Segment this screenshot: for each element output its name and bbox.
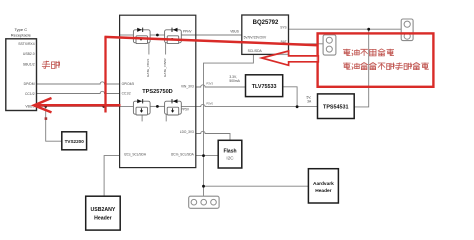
svg-text:TVS2200: TVS2200 bbox=[65, 139, 85, 144]
svg-text:P5V0: P5V0 bbox=[206, 101, 213, 105]
wire SYS branch to TPS54531 input bbox=[354, 29, 369, 107]
wire VIN_3V3 to TLV75533 bbox=[196, 85, 246, 87]
svg-text:Receptacle: Receptacle bbox=[11, 33, 32, 38]
gate stub GATE_VIN5V bbox=[165, 43, 167, 55]
transistor FET3 5V path bbox=[133, 99, 150, 115]
svg-text:I2C: I2C bbox=[226, 156, 234, 161]
svg-text:VBUS: VBUS bbox=[230, 30, 239, 34]
svg-text:TLV75533: TLV75533 bbox=[252, 84, 277, 90]
IC U5 TVS2200 bbox=[62, 132, 87, 150]
IC U2 BQ25792 charger bbox=[242, 15, 289, 54]
wire LDO_3V3 bbox=[196, 131, 230, 140]
node I2C junction 2 bbox=[202, 185, 205, 188]
red annotation slanted line to red box bbox=[105, 37, 319, 45]
gate stub FET4 bbox=[165, 114, 167, 121]
svg-text:SBU1/2: SBU1/2 bbox=[23, 63, 35, 67]
svg-text:SCL/SDA: SCL/SDA bbox=[248, 49, 263, 53]
svg-text:5V/9V/15V/20V: 5V/9V/15V/20V bbox=[244, 35, 267, 39]
svg-text:PPHV: PPHV bbox=[183, 30, 193, 34]
svg-text:TPS54531: TPS54531 bbox=[323, 104, 348, 110]
wire PPHV to BQ25792 VBUS bbox=[181, 34, 242, 36]
wire PP5V rail to TPS54531 bbox=[181, 104, 317, 106]
svg-text:P3V3: P3V3 bbox=[206, 81, 213, 85]
wire VBUS internal to FET1 bbox=[120, 34, 134, 36]
node VBUS junction bbox=[102, 105, 105, 108]
IC U3 TLV75533 LDO bbox=[246, 75, 283, 97]
connector J3 Aardvark Header bbox=[308, 169, 338, 203]
node SYS junction bbox=[367, 28, 370, 31]
svg-text:TPS25750D: TPS25750D bbox=[142, 89, 172, 95]
note text 手機 (phone) bbox=[42, 61, 60, 69]
wire CC1/2 TypeC to TPS CC1/2 bbox=[37, 91, 120, 93]
wire BAT to battery terminal bbox=[289, 43, 324, 45]
node top FET mid bbox=[156, 34, 159, 37]
svg-text:CC1/2: CC1/2 bbox=[25, 92, 35, 96]
wire FET3 to FET4 bbox=[150, 105, 165, 107]
svg-text:GATE_VIN5V: GATE_VIN5V bbox=[163, 57, 167, 77]
svg-text:USB2.0: USB2.0 bbox=[23, 52, 35, 56]
svg-text:USB2ANY: USB2ANY bbox=[91, 207, 116, 213]
red annotation rectangle bbox=[318, 33, 434, 86]
svg-text:Flash: Flash bbox=[223, 148, 236, 154]
IC U6 Flash I2C bbox=[218, 140, 242, 168]
transistor FET1 VBUS path bbox=[133, 28, 150, 44]
red endpoint marker square bbox=[45, 117, 48, 120]
wire I2Cm SCL/SDA to Flash bbox=[196, 155, 218, 157]
svg-text:I2Cs_SCL/SDA: I2Cs_SCL/SDA bbox=[124, 152, 147, 156]
svg-text:SYS: SYS bbox=[280, 25, 286, 29]
svg-text:GPIO4/5: GPIO4/5 bbox=[122, 82, 135, 86]
wire I2C bus down to header bbox=[203, 156, 205, 197]
svg-text:Header: Header bbox=[94, 216, 112, 222]
IC U1 TPS25750D bbox=[120, 15, 196, 167]
svg-text:Aardvark: Aardvark bbox=[313, 181, 334, 187]
svg-text:I2Cm_SCL/SDA: I2Cm_SCL/SDA bbox=[171, 152, 195, 156]
wire VBUS TypeC to TPS bbox=[37, 105, 134, 107]
note text 電池會需要對手機充電 line 2 bbox=[343, 63, 429, 70]
wire FET1 to FET2 bbox=[150, 34, 165, 36]
red hollow block arrow pointing at SCL/SDA bbox=[262, 51, 319, 65]
svg-text:PP5V: PP5V bbox=[181, 107, 190, 111]
svg-text:CC1/2: CC1/2 bbox=[122, 92, 131, 96]
connector J1 Type C Receptacle bbox=[6, 27, 37, 110]
svg-text:Type C: Type C bbox=[14, 27, 27, 32]
svg-text:DP/DM: DP/DM bbox=[24, 82, 35, 86]
wire TLV75533 input from 5V rail bbox=[283, 87, 297, 107]
red annotation vertical line bbox=[104, 36, 106, 112]
red annotation arrow at VBUS bbox=[34, 98, 121, 112]
svg-text:VIN_3V3: VIN_3V3 bbox=[181, 84, 194, 88]
svg-text:500mA: 500mA bbox=[229, 79, 240, 83]
wire I2C bus to Aardvark Header bbox=[204, 185, 309, 187]
wire I2Cs SCL/SDA to USB2ANY Header bbox=[104, 156, 120, 197]
node 5V rail junction bbox=[296, 105, 299, 108]
wire VBUS to TVS2200 bbox=[46, 106, 62, 141]
connector J4 SYS terminal block bbox=[401, 19, 413, 41]
node I2C junction 1 bbox=[202, 154, 205, 157]
wire BQ25792 SCL/SDA to I2C bus bbox=[204, 54, 254, 155]
note text 電池不用充電 line 1 bbox=[343, 49, 394, 56]
svg-text:BQ25792: BQ25792 bbox=[253, 20, 279, 26]
gate stub FET3 bbox=[141, 114, 143, 121]
svg-text:GATE_VBUS: GATE_VBUS bbox=[146, 59, 150, 77]
connector J6 3-pin I2C header bbox=[189, 196, 219, 208]
svg-text:SSTX/RX4: SSTX/RX4 bbox=[18, 42, 35, 46]
node bottom FET mid bbox=[156, 105, 159, 108]
transistor FET2 PPHV path bbox=[165, 28, 182, 44]
gate stub GATE_VBUS bbox=[148, 43, 150, 55]
IC U4 TPS54531 buck bbox=[318, 94, 355, 119]
wire SYS to terminal block bbox=[289, 28, 402, 30]
node VBUS-TVS junction bbox=[44, 105, 47, 108]
svg-text:LDO_3V3: LDO_3V3 bbox=[180, 130, 194, 134]
wire DP/DM TypeC to TPS GPIO4/5 bbox=[37, 82, 120, 84]
svg-text:Header: Header bbox=[315, 188, 331, 194]
connector J5 battery terminal block bbox=[323, 35, 336, 55]
transistor FET4 PP5V path bbox=[165, 99, 182, 115]
connector J2 USB2ANY Header bbox=[86, 196, 121, 230]
